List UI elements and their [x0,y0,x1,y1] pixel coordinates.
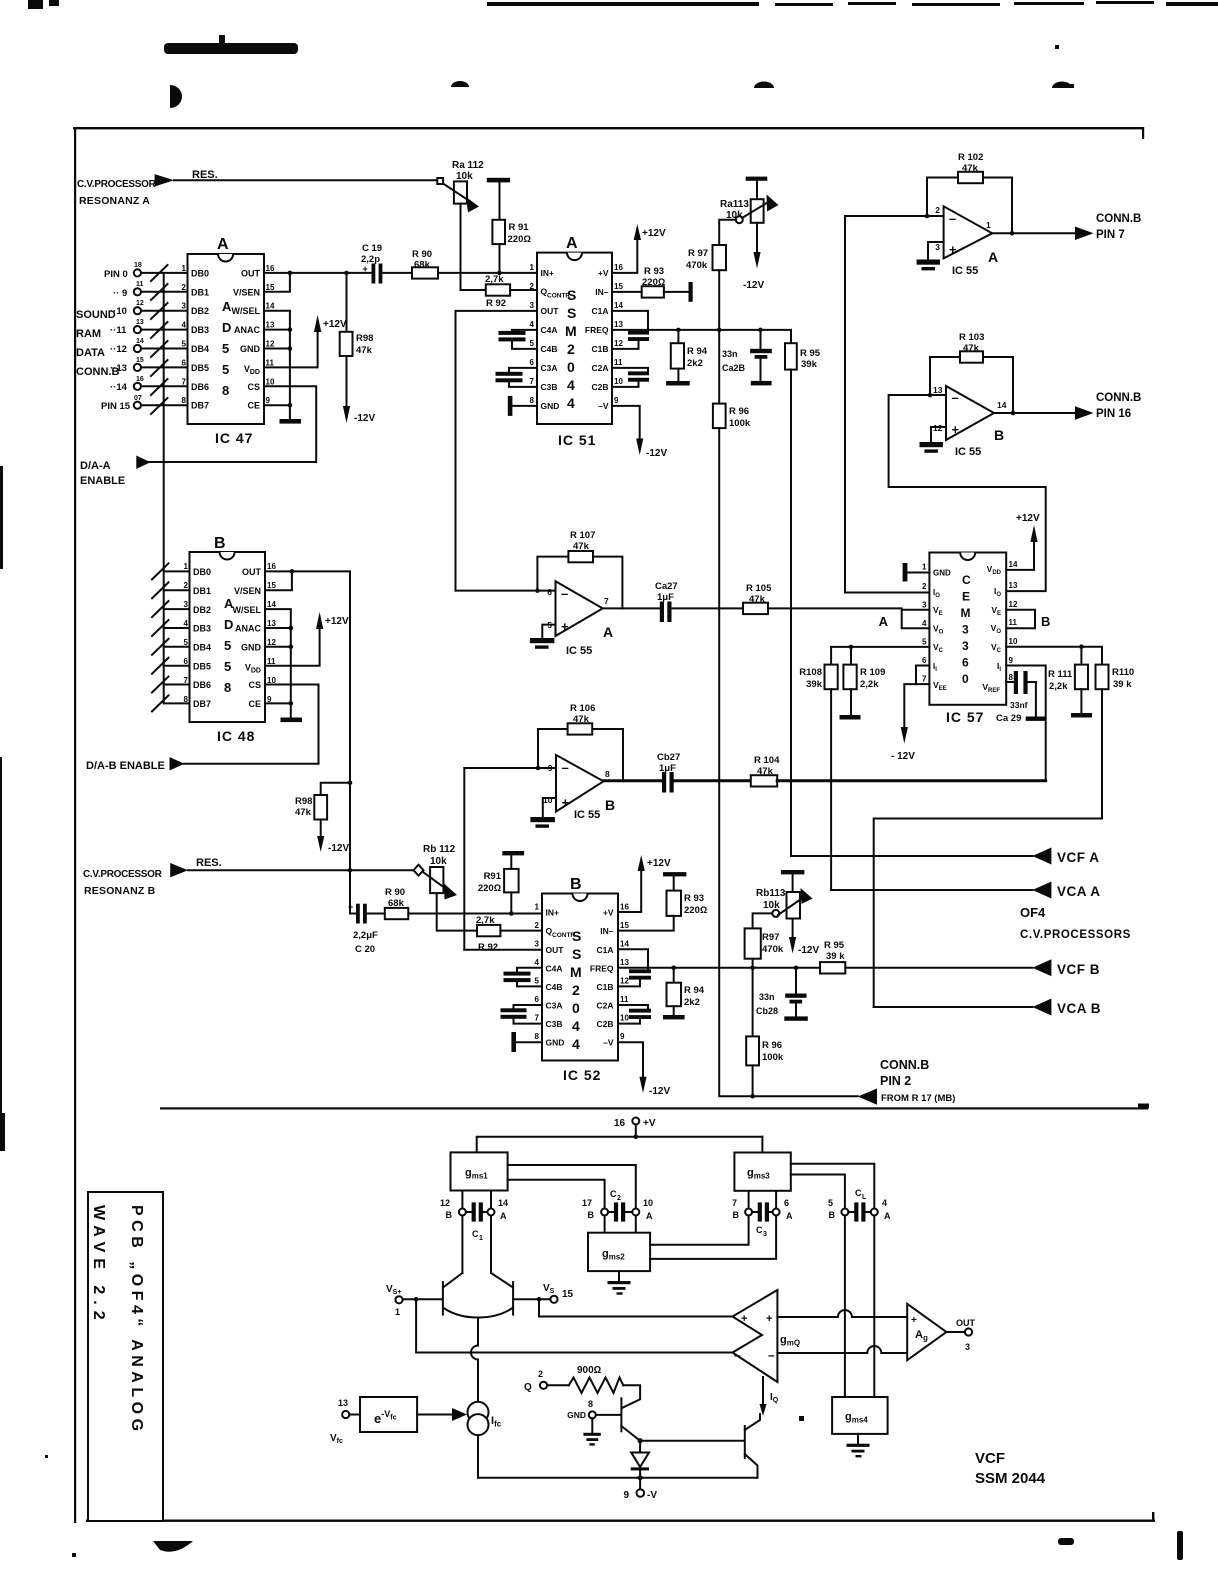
svg-text:VCA A: VCA A [1057,884,1101,899]
svg-text:B: B [733,1210,740,1220]
svg-text:R 106: R 106 [570,703,595,714]
svg-text:C3B: C3B [541,382,558,392]
svg-text:M: M [961,606,971,620]
svg-text:+: + [911,1315,917,1326]
svg-text:220Ω: 220Ω [508,234,532,245]
svg-text:-12V: -12V [646,448,667,459]
node +V bus [634,1134,639,1139]
svg-text:2,2μF: 2,2μF [353,930,378,941]
D/A-A ENABLE arrow [136,456,150,469]
svg-text:W/SEL: W/SEL [232,306,261,316]
node FREQ/R94 [676,328,681,333]
C.V.PROCESSOR RESONANZ B label [83,869,163,897]
svg-text:0: 0 [567,359,575,375]
svg-text:R 109: R 109 [860,667,885,678]
input terminal circles IC47 [134,269,141,409]
svg-text:15: 15 [267,581,276,590]
wire gms2 to 7B [650,1216,749,1245]
terminal OUT pin3 [956,1318,976,1352]
svg-text:10: 10 [1009,637,1018,646]
svg-text:8: 8 [182,396,187,405]
svg-text:7: 7 [732,1198,737,1208]
svg-text:L: L [862,1194,867,1201]
data bus vertical IC47 to IC48 [163,273,165,704]
ground bar IC48 [281,718,303,723]
wire VDD to +12V (IC48) [265,629,320,666]
svg-text:C3B: C3B [546,1019,563,1029]
svg-text:–V: –V [598,401,609,411]
wire II-B pin9 down [1006,666,1045,780]
svg-text:+: + [952,422,960,437]
frame right border stub [1142,127,1144,139]
svg-text:9: 9 [1009,656,1014,665]
+12V arrow IC47 [314,315,347,332]
svg-text:+: + [348,902,353,912]
svg-text:DB1: DB1 [191,287,209,297]
B-side loop pins 12-11 [1006,610,1035,629]
svg-text:+: + [363,264,368,274]
node R98B top [348,780,353,785]
svg-text:R98: R98 [295,796,312,807]
svg-text:CS: CS [248,680,261,690]
svg-text:14: 14 [614,301,623,310]
resistor R104 47k [751,755,780,787]
svg-text:DATA: DATA [76,347,105,359]
svg-text:470k: 470k [762,944,784,955]
terminal VS+ pin1 [386,1284,403,1317]
resistor R108 39k [799,665,837,690]
crescent artifact [170,85,182,108]
svg-text:FROM R 17 (MB): FROM R 17 (MB) [881,1093,955,1104]
wires 12B 14A down to diff pair [462,1216,491,1274]
gm stage gms2 [588,1233,650,1271]
svg-text:DB5: DB5 [193,661,211,671]
svg-text:B: B [1041,614,1050,629]
svg-text:R97: R97 [762,932,779,943]
svg-text:5: 5 [182,340,187,349]
svg-text:R110: R110 [1112,667,1134,678]
svg-text:39 k: 39 k [826,951,845,962]
wire IC57 pin2 up to op-amp A input [845,216,944,593]
wire op-amp mid B output thick [604,779,663,782]
svg-text:C4A: C4A [546,964,563,974]
capacitor Cb28 33n [756,968,808,1021]
svg-text:13: 13 [338,1398,348,1408]
svg-text:-12V: -12V [649,1086,670,1097]
svg-text:R 97: R 97 [688,248,708,259]
svg-text:R 96: R 96 [762,1040,782,1051]
svg-text:47k: 47k [356,345,373,356]
node R96B / pin2 line [750,1094,755,1099]
svg-text:220Ω: 220Ω [684,905,707,916]
svg-text:R 95: R 95 [824,940,845,951]
emitter wire with hop to current source [471,1318,478,1402]
svg-text:OUT: OUT [546,945,565,955]
wire gms1 to 10A [508,1165,636,1209]
svg-text:IN+: IN+ [546,908,560,918]
svg-text:Ra113: Ra113 [720,199,749,210]
svg-text:C.V.PROCESSORS: C.V.PROCESSORS [1020,929,1131,941]
wire gms2 to 6A [650,1216,776,1259]
svg-text:7: 7 [922,675,927,684]
svg-text:16: 16 [614,1118,626,1129]
svg-text:IN+: IN+ [541,268,555,278]
svg-text:1: 1 [395,1307,400,1317]
svg-text:B: B [605,797,615,813]
svg-text:+12V: +12V [642,228,666,239]
ground at op-amp mid A + input [530,625,556,649]
diode D [631,1441,649,1490]
svg-text:8: 8 [224,680,231,695]
CONN.B PIN 7 arrow [1075,213,1141,241]
transistor Q1 [596,1398,640,1440]
svg-text:7: 7 [182,377,187,386]
svg-text:DB4: DB4 [191,344,209,354]
trimmer Rb113 10k [756,870,819,956]
svg-text:R98: R98 [356,333,373,344]
terminal Vfc pin13 [330,1398,360,1445]
svg-text:C2A: C2A [596,1001,613,1011]
svg-text:-12V: -12V [743,280,764,291]
capacitor C4A/C4B (IC51) [499,330,538,349]
svg-text:17: 17 [582,1198,592,1208]
svg-text:14: 14 [1009,560,1018,569]
svg-text:R 102: R 102 [958,152,983,163]
svg-text:A: A [217,236,229,253]
svg-text:2: 2 [617,1195,621,1202]
svg-text:6: 6 [547,587,552,597]
svg-text:B: B [446,1210,453,1220]
svg-text:R 111: R 111 [1048,669,1073,680]
bottom scan marks [153,1541,193,1552]
terminal 4 A [871,1198,891,1221]
wire gms1 to 17B [508,1180,605,1209]
terminal 14 A [488,1198,509,1221]
svg-text:11: 11 [614,358,623,367]
wire GND stub (IC48) [265,646,291,648]
feedback wire op-amp A [927,178,1012,234]
wire gms3 to 4A [791,1164,875,1209]
node VS branch [537,1297,542,1302]
svg-text:16: 16 [267,562,276,571]
svg-text:DB0: DB0 [191,268,209,278]
svg-text:5: 5 [224,659,231,674]
wire IC47 OUT line [264,272,372,274]
svg-text:R 104: R 104 [754,755,780,766]
svg-text:GND: GND [541,401,560,411]
svg-text:FREQ: FREQ [590,964,614,974]
svg-text:2: 2 [922,582,927,591]
svg-text:39k: 39k [801,359,818,370]
svg-text:9: 9 [620,1032,625,1041]
svg-text:2: 2 [567,341,575,357]
svg-text:IN–: IN– [595,287,609,297]
svg-text:Cb28: Cb28 [756,1006,778,1016]
ground at op-amp B + input [920,427,947,453]
svg-text:A: A [222,299,232,314]
exponential converter box [360,1397,417,1432]
svg-text:R 103: R 103 [959,332,984,343]
ground at op-amp mid B + input [530,798,556,828]
ground gms2 [608,1271,631,1295]
svg-text:4: 4 [184,619,189,628]
svg-text:+: + [949,242,957,257]
capacitor C20 2,2uF [348,902,385,955]
svg-text:RES.: RES. [192,169,218,181]
diff pair emitter arc [444,1309,511,1318]
node FREQ/Ca2B [758,328,763,333]
svg-text:1: 1 [530,263,535,272]
svg-text:15: 15 [620,921,629,930]
wire R92B to IC52 pin2 [500,930,542,932]
wire input to op-amp mid B [464,768,556,950]
svg-text:33n: 33n [722,349,738,359]
svg-text:–: – [734,1348,741,1362]
IC48 AD558 D/A converter B [184,535,277,744]
svg-text:DB6: DB6 [193,680,211,690]
svg-text:11: 11 [620,995,629,1004]
svg-text:C 20: C 20 [355,944,375,955]
terminal 12 B [440,1198,466,1220]
svg-text:IC 51: IC 51 [558,432,596,448]
svg-text:C1B: C1B [596,982,613,992]
svg-text:OF4: OF4 [1020,905,1046,920]
left edge scan marks [0,0,59,1151]
svg-text:2: 2 [535,921,540,930]
svg-text:12: 12 [267,638,276,647]
wire RES A line [174,179,437,181]
node FREQ-B/Cb28 [794,966,799,971]
IC51 SSM2044 VCF A [530,235,624,448]
svg-text:+: + [741,1313,747,1325]
svg-text:PIN 2: PIN 2 [880,1074,911,1088]
VCF B arrow [1032,959,1051,976]
capacitor Cb27 1uF [657,752,751,793]
svg-text:3: 3 [922,601,927,610]
svg-text:D: D [224,617,233,632]
svg-text:C: C [756,1225,763,1235]
svg-text:C: C [610,1189,617,1199]
svg-text:2k2: 2k2 [687,358,703,369]
svg-text:8: 8 [1009,673,1014,682]
svg-text:6: 6 [530,358,535,367]
svg-text:CE: CE [248,699,261,709]
svg-text:IC 48: IC 48 [217,728,255,744]
svg-text:5: 5 [828,1198,833,1208]
svg-text:3: 3 [935,242,940,252]
resistor R94 2k2 (A) [666,330,708,386]
svg-text:8: 8 [605,769,610,779]
node CE (IC48) [289,701,294,706]
svg-text:13: 13 [266,321,275,330]
capacitor Ca2B 33n (A) [722,330,772,386]
svg-text:4: 4 [530,320,535,329]
svg-text:2: 2 [530,282,535,291]
svg-text:GND: GND [933,569,951,578]
svg-text:3: 3 [763,1231,767,1238]
resistor R96 100k (A) [713,404,751,429]
node op-amp mid A input [535,588,540,593]
svg-text:10: 10 [266,377,275,386]
svg-text:M: M [570,964,582,980]
svg-text:R 90: R 90 [385,887,405,898]
svg-text:9: 9 [623,1490,629,1501]
svg-text:Ra 112: Ra 112 [452,160,484,171]
svg-text:E: E [962,590,970,604]
svg-text:+12V: +12V [647,858,671,869]
trimmer Ra113 10k [720,177,779,291]
svg-text:DB3: DB3 [193,624,211,634]
svg-text:–: – [949,211,956,226]
resistor R103 47k [959,332,984,363]
ground gms4 [847,1434,870,1458]
svg-text:6: 6 [784,1198,789,1208]
svg-text:900Ω: 900Ω [577,1365,602,1376]
svg-text:A: A [566,235,578,252]
svg-text:5: 5 [222,341,229,356]
wire IC57 pin13 up to op-amp B input [889,395,1046,591]
summing amp gmQ triangle [733,1290,801,1382]
wire R92 to IC51 pin2 [510,289,537,291]
svg-text:2: 2 [538,1369,543,1379]
svg-text:C1A: C1A [591,306,608,316]
CONN.B PIN 16 arrow [1075,392,1141,420]
ground at GND terminal [583,1418,600,1445]
svg-text:R 93: R 93 [644,266,664,277]
svg-text:··14: ··14 [110,382,128,393]
svg-text:ENABLE: ENABLE [80,475,125,487]
svg-text:3: 3 [535,940,540,949]
-12V arrow IC57 [891,727,915,762]
terminal VS pin15 [543,1283,574,1303]
svg-text:FREQ: FREQ [585,325,609,335]
svg-text:18: 18 [134,262,142,269]
svg-text:1: 1 [535,903,540,912]
feedback wire op-amp B [930,357,1013,413]
svg-text:14: 14 [266,302,275,311]
wire VC-A pin5 [831,647,929,665]
svg-text:R 94: R 94 [684,985,705,996]
svg-text:12: 12 [620,977,629,986]
svg-text:2: 2 [184,581,189,590]
svg-text:15: 15 [614,282,623,291]
svg-text:+: + [766,1313,772,1325]
wire V/SEN tie [264,273,290,292]
wire CS to D/A-B enable [184,685,319,764]
wire 900R to Q1 collector [623,1385,640,1407]
svg-text:C4B: C4B [541,344,558,354]
svg-text:VCF B: VCF B [1057,962,1100,977]
node RES B / IC48 OUT [348,868,353,873]
svg-text:5: 5 [535,977,540,986]
wire FREQ pin13 line (B) [618,967,820,969]
svg-text:–: – [562,760,569,775]
wire R104 output thick to IC57 pin9 [777,779,1045,782]
svg-text:R 105: R 105 [746,583,772,594]
svg-text:IC 47: IC 47 [215,430,253,446]
svg-text:R 90: R 90 [412,249,432,260]
svg-text:3: 3 [962,623,969,637]
VCF A arrow [1032,848,1051,865]
svg-text:14: 14 [267,600,276,609]
svg-text:M: M [565,323,577,339]
svg-text:WAVE 2.2: WAVE 2.2 [90,1205,107,1326]
IC47 AD558 D/A converter A [182,236,275,446]
svg-text:DB6: DB6 [191,382,209,392]
svg-text:1: 1 [182,264,187,273]
terminal Q pin2 [524,1369,569,1393]
+V pin16 terminal (block diagram) [614,1118,656,1137]
output amp Ag [907,1304,946,1360]
VCF SSM2044 caption [975,1450,1046,1487]
svg-text:S: S [567,305,576,321]
svg-text:GND: GND [567,1410,586,1420]
svg-text:D/A-B ENABLE: D/A-B ENABLE [86,760,165,772]
svg-text:4: 4 [882,1198,887,1208]
svg-text:C1A: C1A [596,945,613,955]
svg-text:4: 4 [572,1036,580,1052]
svg-text:–: – [768,1348,775,1362]
bus hooks IC48 [152,563,169,711]
svg-text:CONN.B: CONN.B [1096,213,1141,225]
svg-text:CONN.B: CONN.B [1096,392,1141,404]
wire VDD pin14 to +12V [1006,542,1034,570]
svg-text:Cb27: Cb27 [657,752,680,763]
svg-text:DB7: DB7 [191,401,209,411]
svg-text:CONTR: CONTR [552,932,575,939]
svg-text:VCF: VCF [975,1450,1005,1467]
svg-text:5: 5 [184,638,189,647]
node FREQ-B/R94 [671,966,676,971]
svg-text:1: 1 [184,562,189,571]
svg-text:6: 6 [184,657,189,666]
svg-text:6: 6 [962,656,969,670]
svg-text:4: 4 [567,377,575,393]
svg-text:··11: ··11 [110,325,127,336]
svg-text:5: 5 [224,638,231,653]
CONN.B PIN 2 labels [880,1058,955,1104]
node R91/IN+ [497,271,502,276]
+12V arrow IC48 [316,612,349,629]
C.V.PROCESSOR RESONANZ A label [77,179,157,207]
svg-text:10k: 10k [456,171,473,182]
ground bar above R91B [502,851,524,855]
svg-text:0: 0 [572,1000,580,1016]
wire base rail to Q2 [640,1440,743,1442]
svg-text:4: 4 [182,321,187,330]
wires 7B 6A up to gms3 [749,1191,777,1209]
-12V arrow IC51 [636,439,667,460]
transistor Q right of diff pair [491,1273,551,1315]
node VS+ branch [414,1297,419,1302]
svg-text:13: 13 [136,319,144,326]
op-amp IC55 A (middle) [547,581,613,657]
svg-text:8: 8 [535,1032,540,1041]
resistor R106 47k [568,703,596,735]
svg-text:6: 6 [922,656,927,665]
svg-text:C1B: C1B [591,344,608,354]
wire RES B line [188,869,414,871]
svg-text:CONN.B: CONN.B [76,366,119,378]
svg-text:CONTR: CONTR [547,293,570,300]
node R111 top [1079,644,1084,649]
wire FREQ pin13 line (A) [612,329,791,331]
svg-text:1: 1 [479,1235,483,1242]
svg-text:Ca 29: Ca 29 [996,713,1021,724]
svg-text:4: 4 [567,395,575,411]
svg-text:16: 16 [266,264,275,273]
wire II-A pin6 stub [916,666,929,685]
